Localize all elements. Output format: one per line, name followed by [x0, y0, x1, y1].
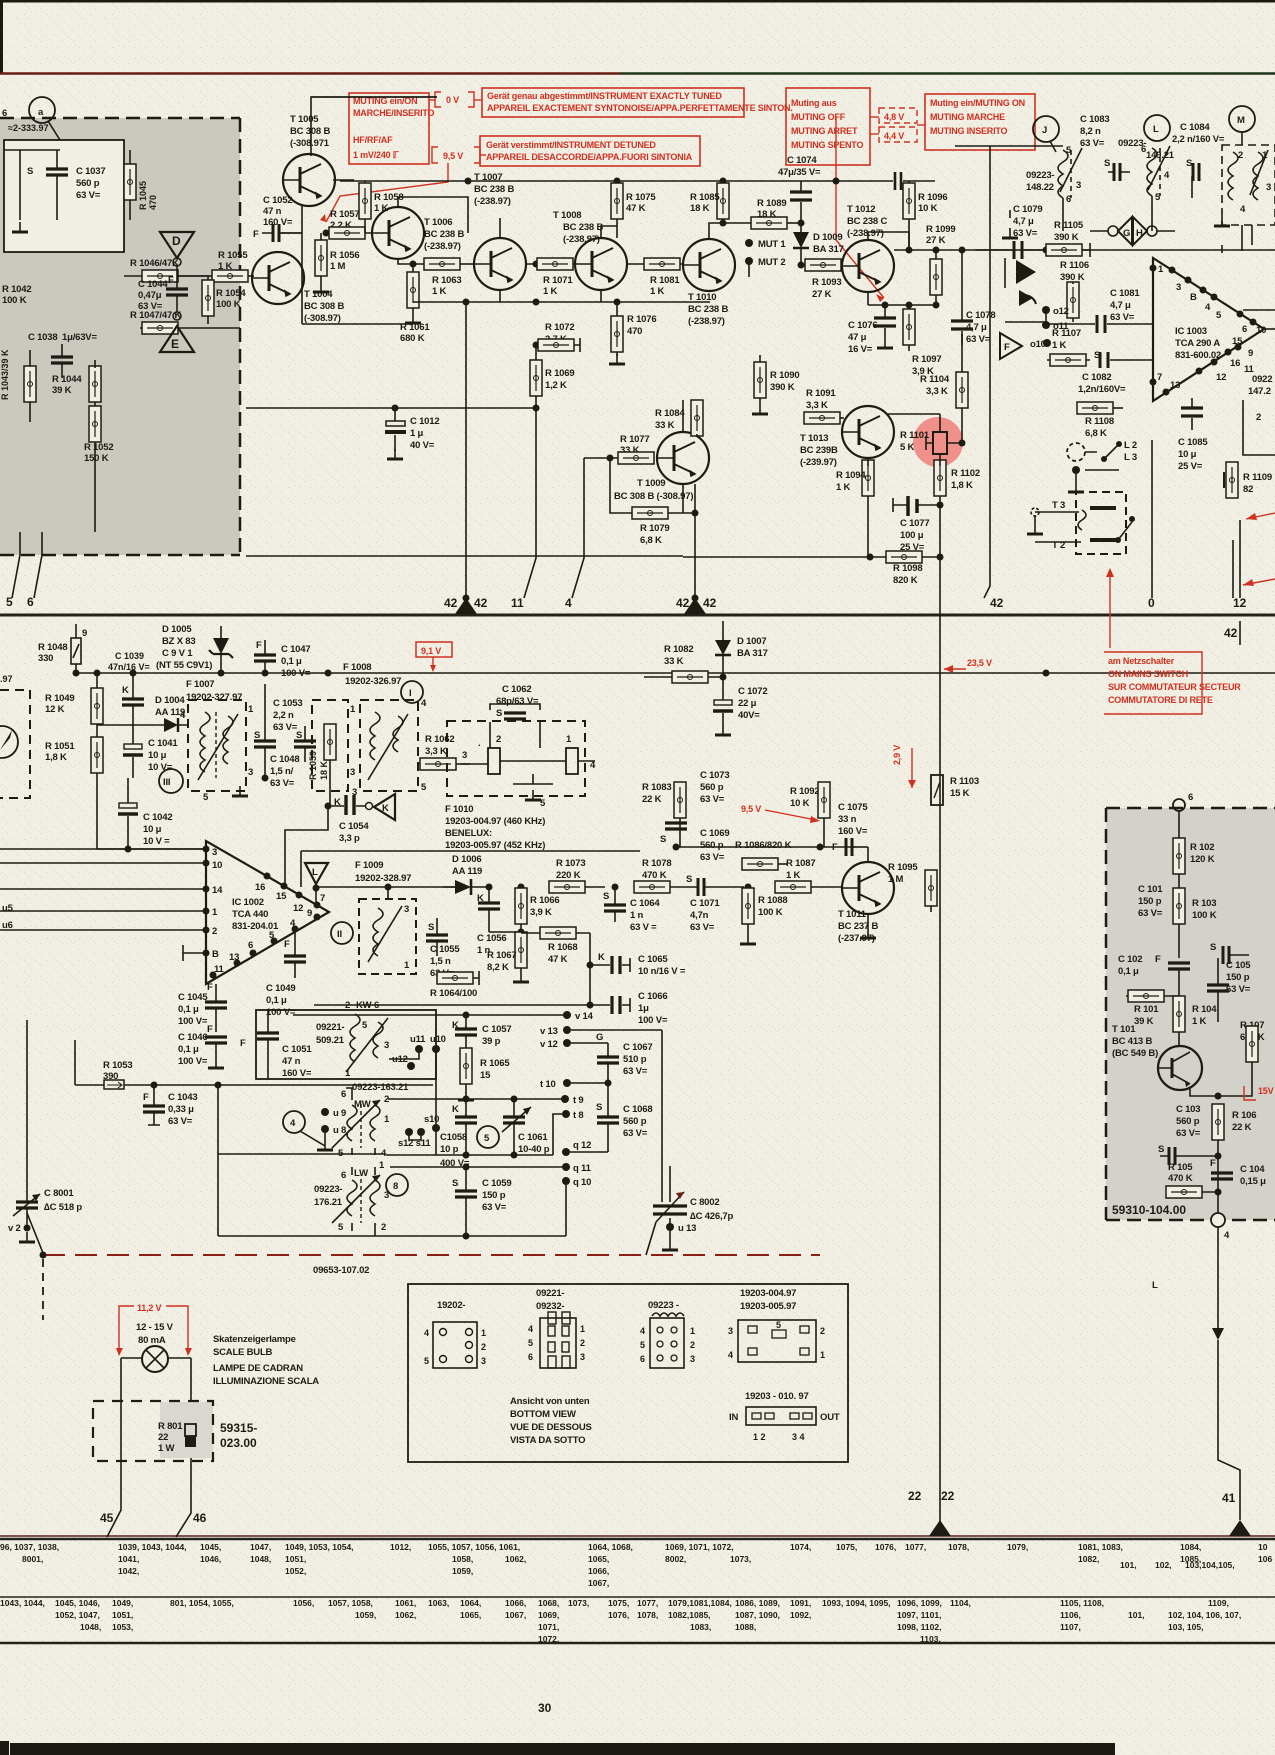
wire v14 row — [293, 1014, 567, 1016]
svg-text:.: . — [478, 738, 480, 749]
svg-text:T 1007: T 1007 — [474, 172, 502, 183]
resistor R1081 — [644, 258, 680, 297]
svg-text:C 1012: C 1012 — [410, 416, 439, 427]
svg-text:47 K: 47 K — [548, 954, 568, 965]
junction dot — [323, 230, 330, 237]
svg-text:1076,: 1076, — [608, 1610, 629, 1620]
svg-text:C 1056: C 1056 — [477, 933, 506, 944]
svg-text:801, 1054, 1055,: 801, 1054, 1055, — [170, 1598, 234, 1608]
svg-text:R 1053: R 1053 — [103, 1060, 132, 1071]
red arrows right edge — [1246, 513, 1275, 519]
svg-text:L 2: L 2 — [1124, 440, 1137, 451]
svg-text:9: 9 — [1248, 348, 1253, 359]
resistor R1097 — [903, 305, 941, 377]
svg-text:47μ/35 V=: 47μ/35 V= — [778, 167, 821, 178]
svg-text:1073,: 1073, — [730, 1554, 751, 1564]
svg-text:v 2: v 2 — [8, 1223, 21, 1234]
svg-text:2,2 n: 2,2 n — [273, 710, 294, 721]
svg-text:2: 2 — [1256, 412, 1261, 423]
svg-text:C 1057: C 1057 — [482, 1024, 511, 1035]
svg-text:BC 238 B: BC 238 B — [563, 222, 603, 233]
svg-text:1 n: 1 n — [630, 910, 644, 921]
svg-text:12: 12 — [1216, 372, 1226, 383]
svg-text:R 1046/47K: R 1046/47K — [130, 258, 179, 269]
top border line — [0, 0, 1275, 3]
svg-text:1041,: 1041, — [118, 1554, 139, 1564]
transistor T1011 — [842, 862, 894, 914]
svg-text:1076,: 1076, — [875, 1542, 896, 1552]
svg-text:(-239.97): (-239.97) — [800, 457, 837, 468]
svg-text:C 9 V 1: C 9 V 1 — [162, 648, 193, 659]
svg-text:6: 6 — [1242, 324, 1247, 335]
svg-text:3: 3 — [1076, 180, 1081, 191]
svg-text:1048,: 1048, — [80, 1622, 101, 1632]
svg-text:F: F — [207, 982, 213, 993]
svg-text:C 1067: C 1067 — [623, 1042, 652, 1053]
svg-text:40V=: 40V= — [738, 710, 760, 721]
svg-text:42: 42 — [444, 596, 458, 610]
svg-text:560 p: 560 p — [76, 178, 100, 189]
svg-text:390 K: 390 K — [770, 382, 795, 393]
svg-text:1106,: 1106, — [1060, 1610, 1081, 1620]
svg-text:(-308.971: (-308.971 — [290, 138, 330, 149]
svg-text:63 V=: 63 V= — [168, 1116, 193, 1127]
svg-text:1075,: 1075, — [836, 1542, 857, 1552]
svg-text:1069,: 1069, — [538, 1610, 559, 1620]
capacitor C1042 — [118, 778, 172, 849]
svg-text:R 1097: R 1097 — [912, 354, 941, 365]
svg-text:S: S — [596, 1102, 602, 1113]
svg-text:C 104: C 104 — [1240, 1164, 1265, 1175]
resistor R1079 — [632, 484, 695, 598]
svg-text:63 V=: 63 V= — [76, 190, 101, 201]
red wire from muting box to T1013 emitter — [836, 117, 884, 298]
red annotation: muting ein box — [925, 94, 1035, 150]
svg-text:09223-163.21: 09223-163.21 — [352, 1082, 409, 1093]
svg-text:470: 470 — [148, 195, 158, 210]
wire T1005 collector to 0V — [311, 97, 437, 156]
wire R1068 drop x590 — [589, 933, 591, 1005]
resistor R1092 — [790, 782, 830, 847]
capacitor C1047 — [254, 640, 311, 679]
svg-text:3,3 p: 3,3 p — [339, 833, 360, 844]
wire to pin3 row — [97, 848, 205, 850]
svg-text:R 1088: R 1088 — [758, 895, 787, 906]
svg-text:C 1073: C 1073 — [700, 770, 729, 781]
svg-text:3: 3 — [690, 1354, 695, 1364]
svg-text:8001,: 8001, — [22, 1554, 43, 1564]
svg-text:63 V=: 63 V= — [270, 778, 295, 789]
svg-text:330: 330 — [38, 653, 53, 664]
wire T1006 emitter to R1063 row — [398, 259, 424, 264]
svg-text:1046,: 1046, — [200, 1554, 221, 1564]
svg-text:6: 6 — [341, 1089, 346, 1100]
svg-text:R 1066: R 1066 — [530, 895, 559, 906]
svg-text:R 1094: R 1094 — [836, 470, 866, 481]
svg-text:1077,: 1077, — [905, 1542, 926, 1552]
svg-text:1066,: 1066, — [588, 1566, 609, 1576]
svg-text:12 K: 12 K — [45, 704, 65, 715]
svg-text:1 K: 1 K — [543, 286, 558, 297]
IC1002 input wires — [0, 848, 206, 850]
resistor R1073 — [549, 858, 605, 893]
svg-text:148.22: 148.22 — [1026, 182, 1054, 193]
svg-text:63 V=: 63 V= — [1226, 984, 1251, 995]
wire left verticals — [27, 1020, 75, 1180]
svg-text:F: F — [207, 1024, 213, 1035]
svg-text:1051,: 1051, — [112, 1610, 133, 1620]
svg-text:1068,: 1068, — [538, 1598, 559, 1608]
svg-text:18 K: 18 K — [319, 760, 329, 780]
wire T1006 collector — [398, 197, 468, 233]
node M — [1229, 106, 1255, 145]
resistor R1087 — [775, 858, 842, 893]
svg-text:63 V=: 63 V= — [138, 301, 163, 312]
svg-text:9: 9 — [307, 908, 312, 919]
svg-text:150 p: 150 p — [1138, 896, 1162, 907]
svg-text:u 13: u 13 — [678, 1223, 696, 1234]
wire x1240 to 12 — [1239, 520, 1241, 645]
svg-text:1074,: 1074, — [790, 1542, 811, 1552]
svg-text:160 V=: 160 V= — [838, 826, 868, 837]
svg-text:1083,: 1083, — [690, 1622, 711, 1632]
svg-text:12 - 15 V: 12 - 15 V — [136, 1322, 174, 1333]
svg-text:≈2-333.97: ≈2-333.97 — [8, 123, 48, 133]
capacitor C1046 — [178, 1024, 227, 1068]
svg-text:BC 238 B: BC 238 B — [474, 184, 514, 195]
L2 L3 switch — [1067, 440, 1137, 492]
svg-text:160 V=: 160 V= — [282, 1068, 312, 1079]
junction dots on rail — [465, 178, 472, 185]
svg-text:v 14: v 14 — [575, 1011, 594, 1022]
svg-text:0,33 μ: 0,33 μ — [168, 1104, 194, 1115]
svg-text:7: 7 — [1157, 372, 1162, 383]
svg-text:1067,: 1067, — [588, 1578, 609, 1588]
svg-text:6: 6 — [248, 940, 253, 951]
svg-text:F: F — [832, 842, 838, 853]
svg-text:40 V=: 40 V= — [410, 440, 435, 451]
svg-text:3,3 K: 3,3 K — [425, 746, 447, 757]
svg-text:103,104,105,: 103,104,105, — [1185, 1560, 1235, 1570]
svg-text:D 1006: D 1006 — [452, 854, 481, 865]
node J — [1033, 116, 1059, 152]
resistor R1098 — [886, 551, 922, 586]
svg-text:1103,: 1103, — [920, 1634, 941, 1644]
svg-text:1 K: 1 K — [786, 870, 801, 881]
red 15V — [1244, 1086, 1274, 1100]
svg-text:D: D — [172, 234, 181, 248]
svg-text:100 V=: 100 V= — [638, 1015, 668, 1026]
svg-text:9,1 V: 9,1 V — [421, 646, 441, 656]
svg-text:22: 22 — [908, 1489, 922, 1503]
svg-text:150 p: 150 p — [1226, 972, 1250, 983]
svg-text:R 1071: R 1071 — [543, 275, 573, 286]
svg-text:1 mV/240 ℾ: 1 mV/240 ℾ — [353, 150, 400, 160]
svg-text:C 1039: C 1039 — [115, 651, 144, 661]
svg-text:9,5 V: 9,5 V — [741, 804, 761, 814]
svg-text:1078,: 1078, — [948, 1542, 969, 1552]
IC1003 triangle — [1150, 258, 1267, 401]
svg-text:4,7 μ: 4,7 μ — [1110, 300, 1131, 311]
resistor R1067 — [487, 932, 529, 982]
wire R1098 row — [683, 556, 940, 558]
svg-text:10 μ: 10 μ — [148, 750, 167, 761]
svg-text:R 1106: R 1106 — [1060, 260, 1089, 271]
capacitor C1075 — [832, 802, 868, 856]
svg-text:R 1103: R 1103 — [950, 776, 979, 787]
transistor T1012 — [842, 240, 894, 292]
svg-text:C 1079: C 1079 — [1013, 204, 1042, 215]
svg-text:F: F — [143, 1092, 149, 1103]
capacitor C1037 — [27, 150, 105, 220]
svg-text:R 1049: R 1049 — [45, 693, 74, 704]
F triangle — [1000, 333, 1051, 359]
svg-text:106: 106 — [1258, 1554, 1272, 1564]
svg-text:Ansicht von unten: Ansicht von unten — [510, 1396, 590, 1407]
svg-text:33 n: 33 n — [838, 814, 857, 825]
svg-text:0,15 μ: 0,15 μ — [1240, 1176, 1266, 1187]
svg-text:T 101: T 101 — [1112, 1024, 1136, 1035]
transistor T1008 — [575, 238, 627, 290]
capacitor C1039 — [108, 651, 150, 723]
svg-text:(-238.97): (-238.97) — [847, 228, 884, 239]
svg-text:t 9: t 9 — [573, 1095, 584, 1106]
svg-text:63 V=: 63 V= — [482, 1202, 507, 1213]
zener D1005 — [156, 624, 233, 673]
svg-text:10 V =: 10 V = — [143, 836, 170, 847]
svg-text:K: K — [452, 1104, 459, 1115]
svg-text:101,: 101, — [1120, 1560, 1137, 1570]
svg-text:T 1005: T 1005 — [290, 114, 319, 125]
svg-text:63 V=: 63 V= — [1176, 1128, 1201, 1139]
svg-text:u6: u6 — [2, 920, 13, 931]
svg-text:63 V=: 63 V= — [690, 922, 715, 933]
capacitor C1073 — [700, 770, 729, 805]
svg-text:1045, 1046,: 1045, 1046, — [55, 1598, 100, 1608]
svg-text:R 1045: R 1045 — [138, 181, 148, 210]
bulb circuit — [93, 1322, 319, 1537]
cap C1067 — [596, 1032, 652, 1083]
wire 6 to divider — [34, 555, 42, 598]
resistor R1101 on pink — [900, 430, 966, 466]
svg-text:COMMUTATORE DI RETE: COMMUTATORE DI RETE — [1108, 695, 1213, 705]
M transformer dashed box — [1214, 145, 1275, 226]
svg-text:1081, 1083,: 1081, 1083, — [1078, 1542, 1123, 1552]
S cap at F1009 — [426, 918, 448, 956]
svg-text:22: 22 — [941, 1489, 955, 1503]
svg-text:G: G — [1123, 228, 1130, 239]
svg-text:5: 5 — [776, 1320, 781, 1330]
svg-text:30: 30 — [538, 1701, 552, 1715]
svg-text:09223-: 09223- — [314, 1184, 342, 1195]
svg-text:9,5 V: 9,5 V — [443, 151, 463, 161]
svg-text:R 1098: R 1098 — [893, 563, 922, 574]
node E — [160, 312, 194, 352]
vertical x536 to 11 — [524, 408, 536, 598]
svg-text:1049,: 1049, — [112, 1598, 133, 1608]
svg-text:0,47μ: 0,47μ — [138, 290, 162, 301]
main horizontal divider — [0, 614, 1275, 617]
svg-text:42: 42 — [1224, 626, 1238, 640]
wire in box — [4, 150, 60, 220]
svg-text:27 K: 27 K — [812, 289, 832, 300]
svg-text:15: 15 — [480, 1070, 491, 1081]
svg-text:VUE DE DESSOUS: VUE DE DESSOUS — [510, 1422, 592, 1433]
svg-text:1105, 1108,: 1105, 1108, — [1060, 1598, 1104, 1608]
svg-text:BC 238 C: BC 238 C — [847, 216, 887, 227]
svg-text:560 p: 560 p — [700, 782, 724, 793]
svg-text:15V: 15V — [1258, 1086, 1274, 1096]
svg-text:BENELUX:: BENELUX: — [445, 828, 492, 839]
resistor R1099 — [926, 224, 955, 305]
svg-text:41: 41 — [1222, 1491, 1236, 1505]
svg-text:1,5 n: 1,5 n — [430, 956, 451, 967]
svg-text:2: 2 — [384, 1094, 389, 1105]
svg-text:LW: LW — [354, 1168, 368, 1179]
svg-text:BC 308 B: BC 308 B — [304, 301, 344, 312]
svg-text:0,1 μ: 0,1 μ — [178, 1004, 199, 1015]
svg-text:MUT 1: MUT 1 — [758, 239, 786, 250]
svg-text:1μ/63V=: 1μ/63V= — [62, 332, 97, 343]
svg-text:C 1078: C 1078 — [966, 310, 995, 321]
svg-text:0922: 0922 — [1252, 374, 1272, 385]
node III — [159, 769, 183, 793]
svg-text:u11: u11 — [410, 1034, 426, 1045]
capacitor C1053 — [254, 684, 302, 778]
svg-text:27 K: 27 K — [926, 235, 946, 246]
svg-text:TCA 440: TCA 440 — [232, 909, 268, 920]
svg-text:101,: 101, — [1128, 1610, 1145, 1620]
resistor R1065 — [458, 1048, 510, 1100]
svg-text:u 9: u 9 — [333, 1108, 346, 1119]
resistor R1075 — [611, 183, 656, 238]
svg-text:R 1051: R 1051 — [45, 741, 75, 752]
svg-text:F: F — [1004, 342, 1010, 353]
svg-text:3: 3 — [481, 1356, 486, 1366]
svg-text:63 V=: 63 V= — [1110, 312, 1135, 323]
svg-text:(NT 55 C9V1): (NT 55 C9V1) — [156, 660, 212, 671]
capacitor C1074 — [778, 155, 821, 218]
svg-text:Gerät genau abgestimmt/INSTRUM: Gerät genau abgestimmt/INSTRUMENT EXACTL… — [487, 91, 722, 101]
svg-text:5: 5 — [6, 595, 13, 609]
IC1002 triangle — [203, 841, 330, 984]
svg-text:C 1044: C 1044 — [138, 279, 168, 290]
resistor R1077 — [618, 434, 654, 464]
svg-text:G: G — [596, 1032, 603, 1043]
S cap C1071 — [686, 874, 744, 933]
svg-text:023.00: 023.00 — [220, 1436, 257, 1450]
svg-text:23,5 V: 23,5 V — [967, 658, 992, 668]
svg-text:3 4: 3 4 — [792, 1432, 805, 1442]
capacitor C1043 — [143, 1085, 197, 1127]
svg-text:C 1081: C 1081 — [1110, 288, 1140, 299]
svg-text:4,8 V: 4,8 V — [884, 112, 904, 122]
svg-text:3: 3 — [384, 1040, 389, 1051]
svg-text:45: 45 — [100, 1511, 114, 1525]
svg-text:II: II — [337, 929, 342, 940]
svg-text:2: 2 — [481, 1342, 486, 1352]
right gray block — [1106, 808, 1275, 1220]
svg-text:C 1068: C 1068 — [623, 1104, 652, 1115]
svg-text:S: S — [428, 922, 434, 933]
svg-text:R 1056: R 1056 — [330, 250, 359, 261]
svg-text:1066,: 1066, — [505, 1598, 526, 1608]
svg-text:63 V=: 63 V= — [1138, 908, 1163, 919]
svg-text:3: 3 — [1266, 182, 1271, 193]
svg-text:2: 2 — [690, 1340, 695, 1350]
svg-text:560 p: 560 p — [623, 1116, 647, 1127]
svg-text:L: L — [1153, 124, 1159, 135]
svg-text:2: 2 — [1238, 150, 1243, 161]
svg-text:33 K: 33 K — [655, 420, 675, 431]
capacitor C1085 — [1178, 398, 1208, 472]
svg-text:100 V=: 100 V= — [281, 668, 311, 679]
R1064/100 — [430, 971, 479, 999]
svg-text:C 1071: C 1071 — [690, 898, 720, 909]
svg-text:102, 104, 106, 107,: 102, 104, 106, 107, — [1168, 1610, 1241, 1620]
svg-text:3: 3 — [728, 1326, 733, 1336]
svg-text:10 K: 10 K — [918, 203, 938, 214]
svg-text:1097, 1101,: 1097, 1101, — [897, 1610, 941, 1620]
svg-text:R 1076: R 1076 — [627, 314, 656, 325]
node 8 circle — [386, 1174, 408, 1196]
bottom section lines — [0, 1535, 1275, 1537]
svg-text:R 1064/100: R 1064/100 — [430, 988, 477, 999]
svg-text:1043, 1044,: 1043, 1044, — [0, 1598, 45, 1608]
capacitor C1072 — [713, 686, 767, 735]
svg-text:C 1076: C 1076 — [848, 320, 877, 331]
svg-text:I: I — [409, 688, 411, 699]
svg-text:1092,: 1092, — [790, 1610, 811, 1620]
diode D1007 — [715, 621, 768, 700]
svg-text:5: 5 — [424, 1356, 429, 1366]
transistor T1004 — [252, 252, 304, 304]
v12 terminal — [540, 1039, 608, 1050]
svg-text:IC 1003: IC 1003 — [1175, 326, 1207, 337]
wire o11 row — [1005, 310, 1046, 325]
svg-text:D 1007: D 1007 — [737, 636, 766, 647]
svg-text:1073,: 1073, — [568, 1598, 589, 1608]
svg-text:R 1079: R 1079 — [640, 523, 669, 534]
svg-text:3: 3 — [462, 750, 467, 761]
svg-text:q 11: q 11 — [573, 1163, 592, 1174]
resistor R1094 — [836, 460, 874, 557]
signal wire T1012 out — [894, 249, 1275, 251]
svg-text:1065,: 1065, — [460, 1610, 481, 1620]
svg-text:SCALE BULB: SCALE BULB — [213, 1347, 273, 1358]
resistor R1093 — [805, 259, 842, 300]
svg-text:5: 5 — [640, 1340, 645, 1350]
node I circle — [401, 681, 423, 703]
resistor R1044 — [52, 360, 101, 412]
svg-text:42: 42 — [474, 596, 488, 610]
resistor R1102 — [934, 460, 980, 621]
svg-text:8: 8 — [393, 1181, 398, 1192]
F1010 ceramic filter — [447, 721, 596, 809]
svg-text:R 1063: R 1063 — [432, 275, 461, 286]
svg-text:6: 6 — [528, 1352, 533, 1362]
ground in box — [12, 222, 28, 232]
svg-text:1053,: 1053, — [112, 1622, 133, 1632]
svg-text:6: 6 — [27, 595, 34, 609]
svg-text:12: 12 — [293, 903, 303, 914]
muting photo diodes — [1002, 210, 1036, 306]
KW band box — [256, 1000, 436, 1079]
resistor R1078 — [634, 858, 697, 893]
svg-text:5: 5 — [528, 1338, 533, 1348]
svg-text:09223-: 09223- — [1026, 170, 1054, 181]
svg-text:220 K: 220 K — [556, 870, 581, 881]
